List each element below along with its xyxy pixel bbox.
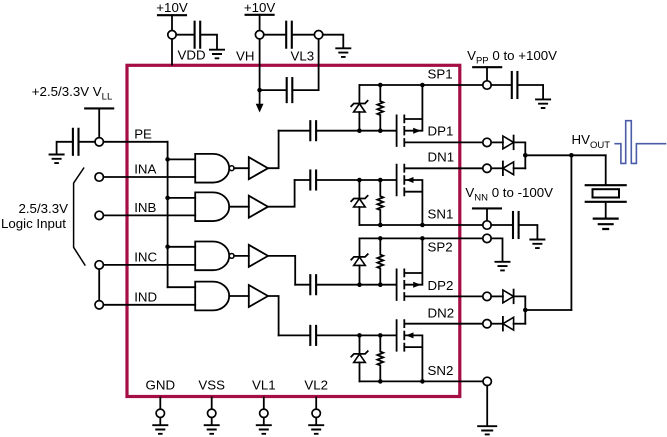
waveform pulse bbox=[614, 121, 666, 164]
capacitor C9 (ch3 coupling) bbox=[309, 275, 311, 294]
wire ch1 coupling bbox=[279, 130, 310, 132]
svg-text:IND: IND bbox=[134, 289, 157, 304]
wire INB bbox=[103, 214, 195, 216]
wire bbox=[259, 15, 261, 31]
wire VL2 pin bbox=[315, 398, 317, 410]
wire bbox=[98, 108, 100, 137]
VLL supply bar bbox=[85, 107, 113, 109]
and gate G2 bbox=[195, 192, 229, 221]
zener Z3 bbox=[351, 238, 367, 284]
terminal IND bbox=[95, 301, 103, 309]
svg-text:VH: VH bbox=[236, 48, 254, 63]
wire SP1 rail bbox=[359, 84, 482, 86]
resistor R4 bbox=[377, 335, 383, 381]
zener Z2 bbox=[351, 180, 367, 225]
wire bbox=[514, 323, 526, 325]
capacitor C2 (VH-VL3) bbox=[285, 22, 287, 48]
diode D3 bbox=[503, 290, 514, 303]
wire bbox=[234, 255, 249, 257]
capacitor C5 (VPP bypass) bbox=[511, 72, 513, 98]
wire bbox=[605, 203, 607, 218]
svg-text:VSS: VSS bbox=[198, 377, 225, 392]
wire bbox=[293, 34, 315, 36]
svg-text:+10V: +10V bbox=[156, 0, 188, 15]
wire HVOUT to lower diodes bbox=[570, 155, 572, 310]
wire bbox=[514, 167, 526, 169]
nand gate G1 bbox=[195, 154, 229, 183]
terminal DN1 bbox=[483, 164, 491, 172]
wire bbox=[486, 208, 488, 220]
svg-text:SN1: SN1 bbox=[428, 207, 454, 222]
terminal VSS bbox=[208, 409, 216, 417]
wire INC-IND link bbox=[98, 269, 100, 301]
ground bbox=[308, 425, 324, 434]
terminal VDD bbox=[168, 31, 176, 39]
wire gate2 top input bbox=[168, 197, 196, 199]
ground bbox=[204, 425, 220, 434]
wire bbox=[171, 15, 173, 30]
ground bbox=[335, 48, 351, 57]
input brace bbox=[74, 168, 86, 266]
terminal DN2 bbox=[483, 320, 491, 328]
ground bbox=[535, 99, 551, 108]
svg-text:SP1: SP1 bbox=[428, 67, 453, 82]
node bus-C bbox=[165, 245, 170, 250]
wire to HVOUT bbox=[525, 309, 571, 311]
wire buffer1 out bbox=[268, 131, 279, 169]
IC boundary bbox=[127, 65, 460, 396]
wire bbox=[491, 84, 511, 86]
terminal VL1 bbox=[260, 409, 268, 417]
wire bbox=[486, 67, 488, 81]
wire bbox=[229, 295, 249, 297]
wire bbox=[491, 295, 503, 297]
node D1-D2 junction bbox=[523, 153, 528, 158]
svg-text:VL2: VL2 bbox=[304, 377, 328, 392]
wire lower cap row bbox=[260, 89, 286, 91]
svg-text:PE: PE bbox=[134, 126, 152, 141]
capacitor C1 (VDD bypass) bbox=[194, 22, 196, 48]
svg-text:VL1: VL1 bbox=[252, 377, 276, 392]
buffer U2 bbox=[249, 196, 268, 218]
wire bbox=[317, 130, 359, 132]
zener Z4 bbox=[351, 335, 367, 381]
wire bbox=[317, 284, 359, 286]
transistor M1 (PMOS DP1) bbox=[397, 115, 405, 146]
wire bbox=[323, 35, 344, 48]
svg-text:GND: GND bbox=[146, 377, 176, 392]
VPP supply bar bbox=[473, 66, 501, 68]
terminal SP1 bbox=[483, 81, 491, 89]
wire INC bbox=[103, 264, 195, 266]
diode D2 bbox=[503, 162, 514, 175]
node bus-A bbox=[165, 157, 170, 162]
wire bbox=[317, 179, 359, 181]
svg-text:INB: INB bbox=[134, 200, 156, 215]
resistor R2 bbox=[377, 180, 383, 225]
svg-text:VL3: VL3 bbox=[291, 48, 315, 63]
transistor M2 (NMOS DN1) bbox=[397, 165, 405, 196]
terminal VL2 bbox=[312, 409, 320, 417]
ground bbox=[152, 425, 168, 434]
wire ch4 gate line bbox=[360, 334, 397, 336]
ground bbox=[209, 50, 225, 59]
wire ch4 coupling bbox=[279, 334, 310, 336]
terminal SN1 bbox=[483, 221, 491, 229]
wire gate3 top input bbox=[168, 246, 196, 248]
capacitor C4 (VLL bypass) bbox=[77, 129, 79, 155]
capacitor C8 (ch2 coupling) bbox=[309, 171, 311, 190]
nand gate G3 bbox=[195, 242, 229, 271]
wire bbox=[263, 418, 265, 425]
wire buffer4 out bbox=[268, 296, 279, 335]
buffer U4 bbox=[249, 285, 268, 307]
svg-text:INA: INA bbox=[134, 162, 156, 177]
terminal VL3 bbox=[314, 31, 322, 39]
VNN supply bar bbox=[473, 207, 501, 209]
wire bbox=[211, 418, 213, 425]
terminal INB bbox=[95, 211, 103, 219]
+10V supply bar (VH) bbox=[246, 14, 274, 16]
svg-text:DN1: DN1 bbox=[428, 150, 455, 165]
wire gate4 top input bbox=[168, 286, 196, 288]
node VH junction bbox=[257, 88, 262, 93]
wire bbox=[486, 386, 488, 426]
wire bbox=[491, 167, 503, 169]
wire bbox=[514, 142, 526, 168]
terminal GND bbox=[156, 409, 164, 417]
wire bbox=[514, 296, 526, 323]
wire buffer2 out bbox=[268, 180, 295, 207]
svg-text:+10V: +10V bbox=[244, 0, 276, 15]
terminal INC bbox=[95, 261, 103, 269]
and gate G4 bbox=[195, 282, 229, 311]
wire ch2 coupling bbox=[295, 179, 310, 181]
capacitor C3 (VH-VL3 internal) bbox=[286, 78, 288, 102]
wire INA bbox=[103, 176, 195, 178]
resistor R1 bbox=[377, 85, 383, 131]
wire ch2 gate line bbox=[359, 179, 396, 181]
wire SN1 rail bbox=[359, 224, 482, 226]
wire bbox=[229, 206, 249, 208]
transistor M3 (PMOS DP2) bbox=[397, 269, 405, 300]
wire gate1 top input bbox=[168, 158, 196, 160]
wire bbox=[491, 224, 512, 226]
wire HVOUT bbox=[525, 154, 605, 156]
ground bbox=[477, 426, 497, 434]
capacitor C6 (VNN bypass) bbox=[512, 212, 514, 238]
wire SN2 rail bbox=[360, 380, 483, 382]
svg-text:SN2: SN2 bbox=[428, 363, 454, 378]
wire bbox=[315, 418, 317, 425]
node HVOUT bbox=[569, 153, 574, 158]
zener Z1 bbox=[351, 85, 367, 131]
svg-text:DP1: DP1 bbox=[428, 124, 454, 139]
terminal PE bbox=[95, 138, 103, 146]
wire bbox=[201, 35, 217, 49]
svg-text:INC: INC bbox=[134, 249, 157, 264]
resistor R3 bbox=[377, 238, 383, 284]
wire VL1 pin bbox=[263, 398, 265, 410]
wire PE into IC bbox=[103, 141, 167, 143]
wire GND pin bbox=[159, 398, 161, 410]
wire ch1 gate line bbox=[359, 130, 396, 132]
buffer U1 bbox=[249, 157, 268, 179]
svg-text:VDD: VDD bbox=[178, 48, 206, 63]
wire VDD pin into IC bbox=[171, 39, 173, 65]
wire transducer bbox=[605, 155, 607, 184]
+10V supply bar (VDD) bbox=[158, 14, 186, 16]
node bus-B bbox=[165, 196, 170, 201]
wire bbox=[293, 89, 318, 91]
wire bbox=[264, 34, 285, 36]
wire ch3 coupling bbox=[295, 284, 309, 286]
wire bbox=[176, 34, 193, 36]
wire bbox=[317, 334, 359, 336]
wire VH pin into IC with arrow bbox=[259, 39, 261, 105]
wire bbox=[491, 238, 502, 261]
transistor M4 (NMOS DN2) bbox=[397, 320, 405, 351]
buffer U3 bbox=[249, 245, 268, 267]
capacitor C10 (ch4 coupling) bbox=[309, 326, 311, 345]
ground bbox=[593, 219, 619, 229]
wire ch3 gate line bbox=[360, 284, 397, 286]
wire bbox=[518, 85, 543, 99]
wire VSS pin bbox=[211, 398, 213, 410]
svg-text:DP2: DP2 bbox=[428, 278, 454, 293]
wire VL3 down bbox=[318, 39, 320, 90]
wire IND bbox=[103, 304, 195, 306]
transducer X1 bbox=[586, 184, 626, 186]
svg-text:2.5/3.3V: 2.5/3.3V bbox=[18, 201, 68, 216]
capacitor C7 (ch1 coupling) bbox=[309, 121, 311, 140]
ground bbox=[49, 155, 65, 164]
wire buffer3 out bbox=[268, 256, 295, 285]
wire bbox=[159, 418, 161, 425]
terminal SN2 bbox=[483, 377, 491, 385]
wire bbox=[491, 323, 503, 325]
svg-text:SP2: SP2 bbox=[428, 239, 453, 254]
terminal DP2 bbox=[483, 292, 491, 300]
svg-text:Logic Input: Logic Input bbox=[1, 216, 66, 231]
wire bbox=[234, 167, 249, 169]
ground bbox=[256, 425, 272, 434]
node D3-D4 junction bbox=[523, 308, 528, 313]
ground bbox=[529, 240, 545, 249]
wire SP2 rail bbox=[360, 237, 483, 239]
terminal INA bbox=[95, 173, 103, 181]
diode D1 bbox=[503, 136, 514, 149]
wire bbox=[80, 141, 96, 143]
wire bbox=[491, 141, 503, 143]
terminal VH bbox=[255, 31, 263, 39]
diode D4 bbox=[503, 317, 514, 330]
terminal SP2 bbox=[483, 234, 491, 242]
wire bbox=[57, 142, 72, 154]
wire PE bus bbox=[167, 142, 169, 287]
terminal DP1 bbox=[483, 138, 491, 146]
ground bbox=[495, 262, 511, 271]
svg-text:DN2: DN2 bbox=[428, 305, 455, 320]
wire bbox=[520, 225, 538, 239]
